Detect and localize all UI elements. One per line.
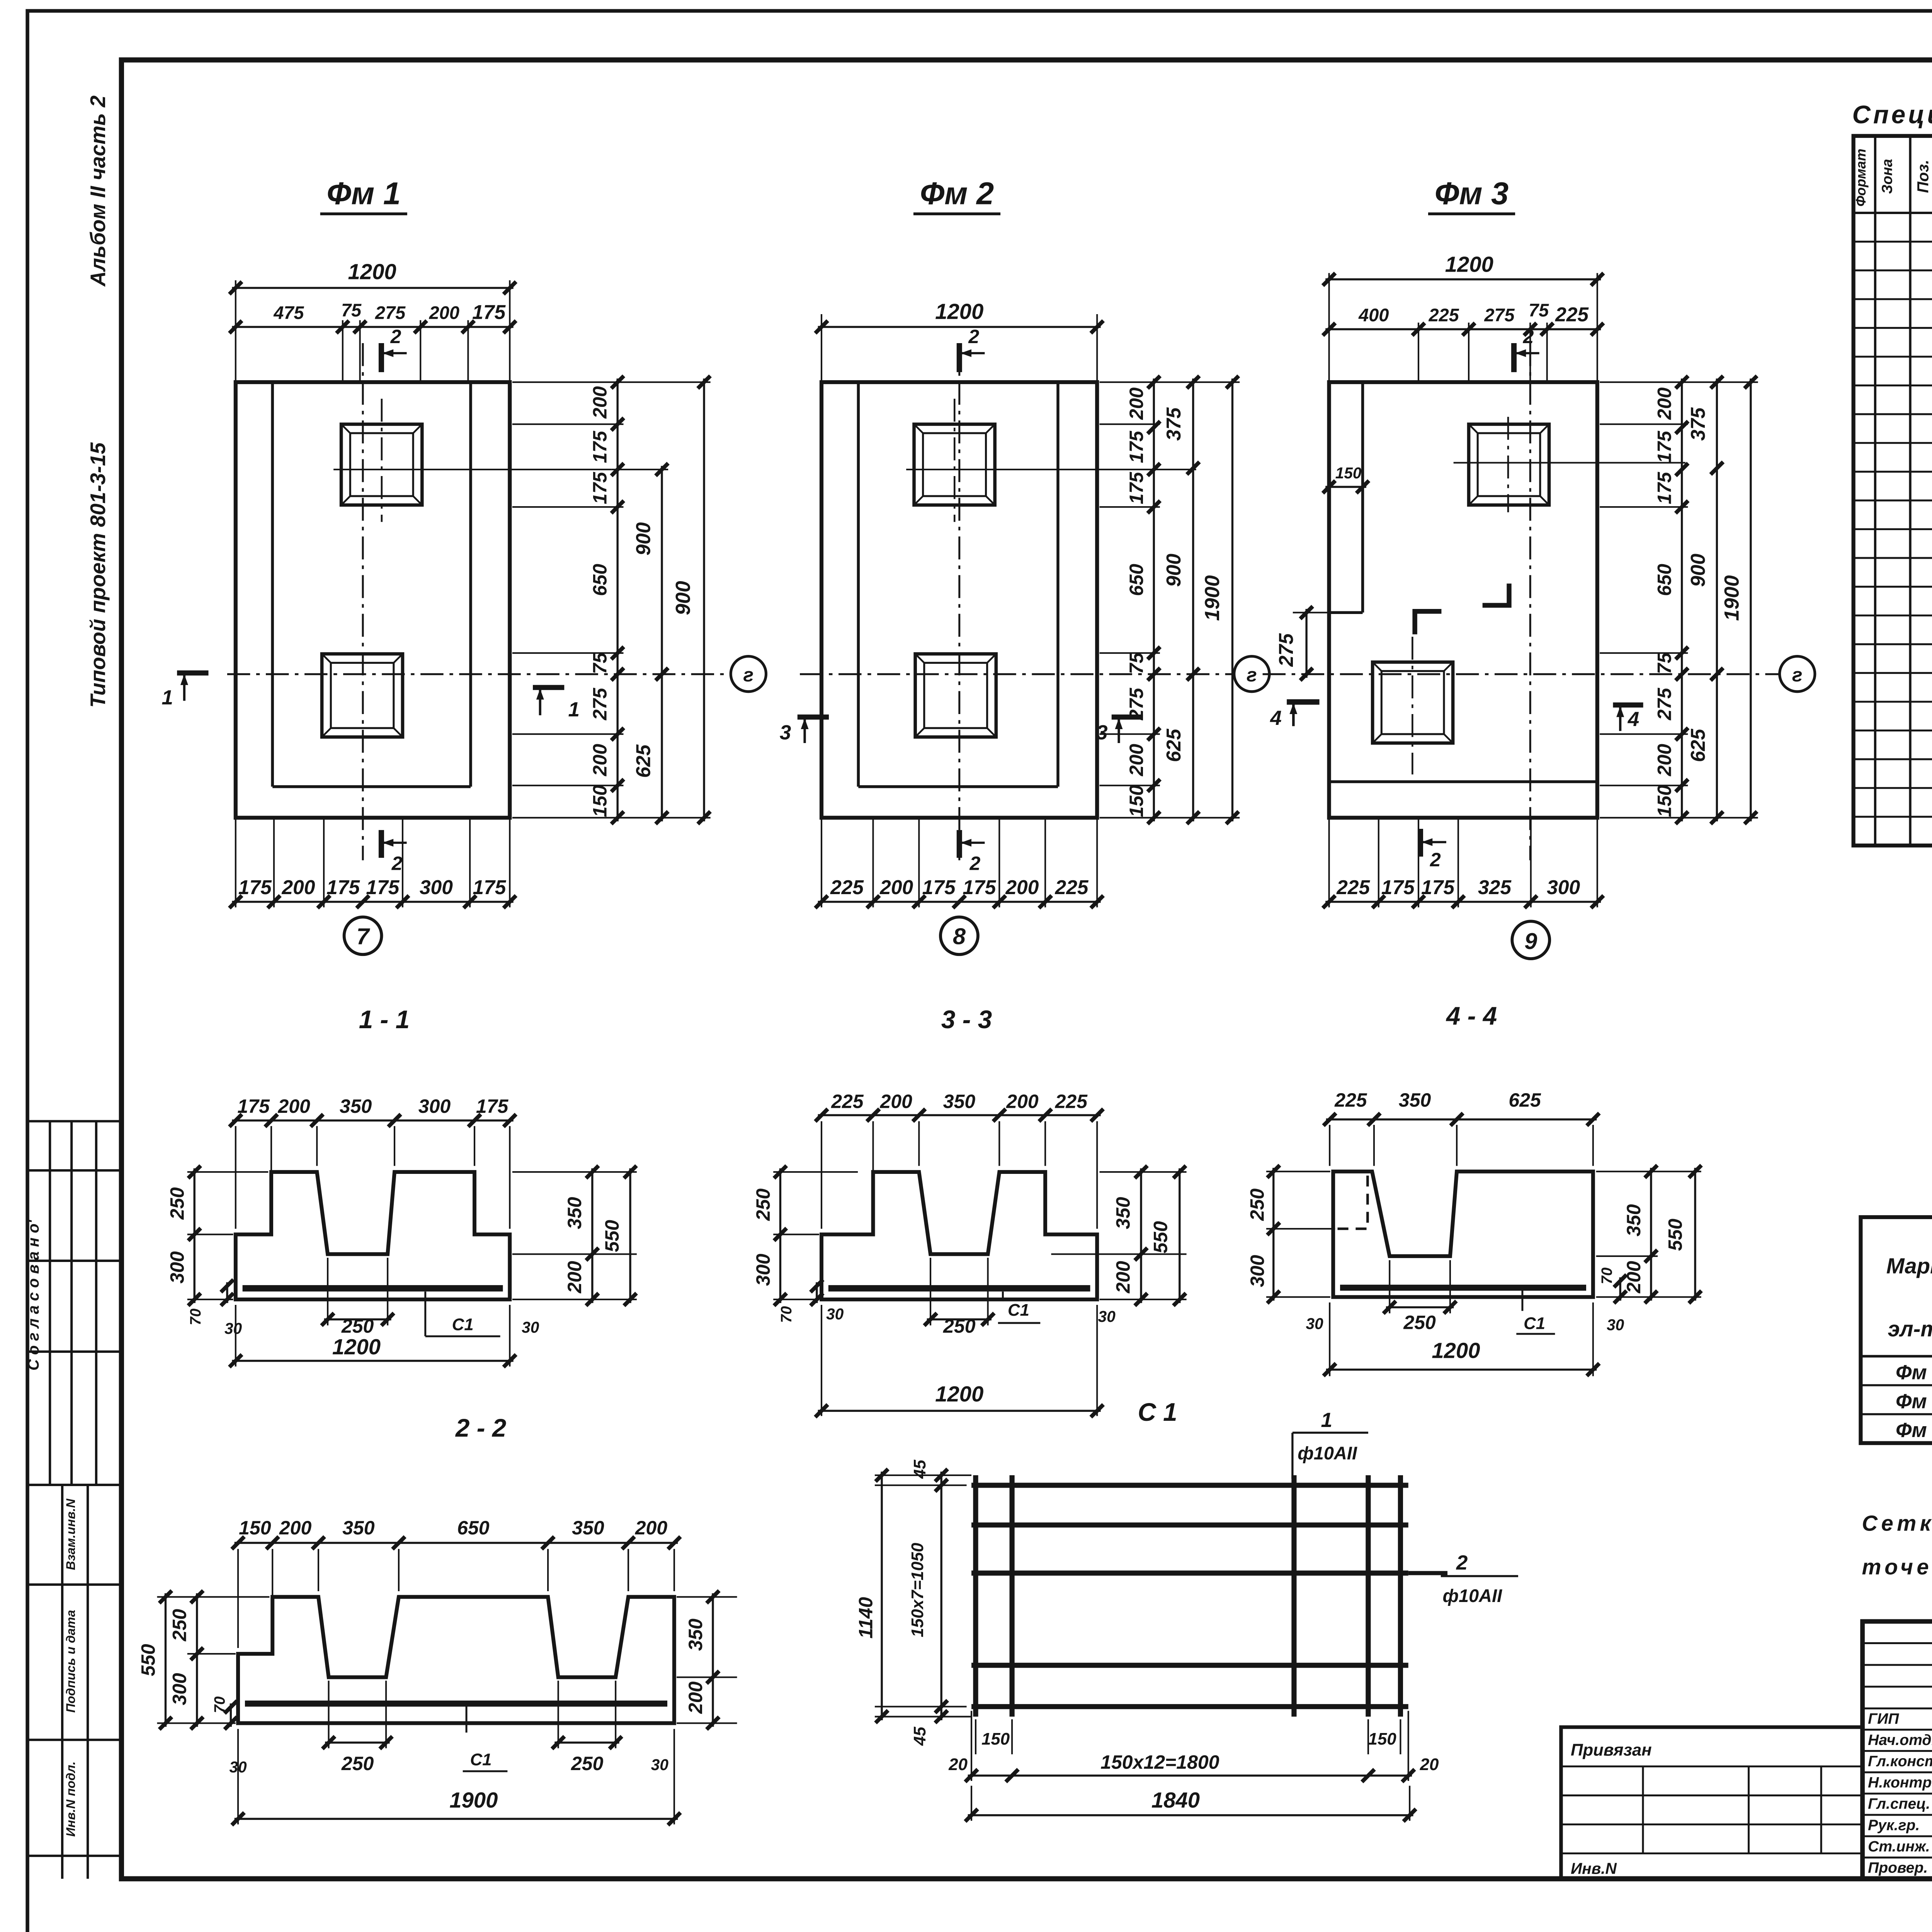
- svg-text:900: 900: [632, 522, 654, 555]
- svg-text:Гл.спец.: Гл.спец.: [1868, 1796, 1930, 1812]
- svg-text:70: 70: [778, 1306, 795, 1323]
- svg-text:225: 225: [1334, 1089, 1367, 1111]
- svg-text:Фм 1: Фм 1: [1896, 1361, 1932, 1384]
- svg-text:Зона: Зона: [1879, 159, 1895, 194]
- svg-text:45: 45: [910, 1726, 929, 1746]
- svg-text:Фм 3: Фм 3: [1435, 176, 1509, 211]
- svg-text:175: 175: [366, 876, 400, 898]
- svg-text:150: 150: [589, 785, 611, 817]
- svg-text:625: 625: [1162, 728, 1185, 762]
- svg-text:175: 175: [476, 1095, 509, 1117]
- svg-text:325: 325: [1478, 876, 1512, 898]
- svg-text:200: 200: [685, 1681, 706, 1714]
- svg-text:Ст.инж.: Ст.инж.: [1868, 1838, 1930, 1855]
- svg-text:300: 300: [1547, 876, 1580, 898]
- svg-text:75: 75: [1126, 652, 1147, 674]
- svg-text:550: 550: [1150, 1221, 1172, 1253]
- svg-text:150: 150: [981, 1730, 1010, 1748]
- svg-text:225: 225: [1429, 305, 1459, 325]
- svg-text:375: 375: [1687, 407, 1709, 440]
- svg-text:Типовой проект 801-3-15: Типовой проект 801-3-15: [86, 442, 110, 708]
- svg-text:2: 2: [1456, 1551, 1468, 1574]
- svg-text:150: 150: [1126, 785, 1147, 817]
- svg-text:225: 225: [1055, 876, 1089, 898]
- svg-text:1200: 1200: [332, 1335, 381, 1359]
- svg-text:2: 2: [1430, 849, 1441, 871]
- svg-text:200: 200: [1005, 876, 1039, 898]
- svg-text:250: 250: [169, 1609, 190, 1642]
- svg-text:С1: С1: [1524, 1314, 1545, 1333]
- svg-text:200: 200: [589, 386, 611, 419]
- svg-text:225: 225: [830, 876, 864, 898]
- svg-text:900: 900: [1162, 554, 1185, 587]
- svg-text:г: г: [1247, 664, 1257, 686]
- svg-text:300: 300: [752, 1253, 774, 1286]
- svg-text:Провер.: Провер.: [1868, 1860, 1928, 1876]
- svg-text:275: 275: [1484, 305, 1515, 325]
- svg-text:7: 7: [357, 923, 371, 949]
- svg-text:Альбом ΙΙ часть 2: Альбом ΙΙ часть 2: [86, 95, 110, 287]
- svg-text:200: 200: [281, 876, 315, 898]
- svg-text:Гл.констр.: Гл.констр.: [1868, 1753, 1932, 1770]
- svg-text:75: 75: [589, 652, 611, 674]
- svg-text:1840: 1840: [1151, 1788, 1200, 1812]
- svg-text:225: 225: [1336, 876, 1370, 898]
- svg-text:175: 175: [237, 1095, 270, 1117]
- svg-text:225: 225: [1055, 1090, 1088, 1112]
- svg-text:150: 150: [1368, 1730, 1396, 1748]
- svg-text:200: 200: [1126, 387, 1147, 420]
- svg-text:200: 200: [564, 1261, 585, 1294]
- svg-text:30: 30: [651, 1756, 669, 1774]
- svg-text:175: 175: [327, 876, 360, 898]
- svg-text:300: 300: [169, 1673, 190, 1705]
- svg-text:3 - 3: 3 - 3: [941, 1005, 992, 1034]
- svg-text:20: 20: [948, 1755, 968, 1774]
- svg-text:точечной электросварки.: точечной электросварки.: [1862, 1554, 1932, 1579]
- svg-text:ф10АΙΙ: ф10АΙΙ: [1443, 1586, 1503, 1606]
- svg-text:2: 2: [390, 326, 401, 347]
- svg-text:2: 2: [969, 852, 981, 874]
- svg-text:225: 225: [1555, 303, 1589, 326]
- svg-text:70: 70: [1599, 1267, 1615, 1284]
- svg-text:250: 250: [1247, 1189, 1268, 1221]
- svg-text:275: 275: [1654, 687, 1675, 721]
- svg-text:Н.контр.: Н.контр.: [1868, 1774, 1932, 1791]
- svg-text:Фм 3: Фм 3: [1896, 1419, 1932, 1442]
- svg-text:350: 350: [1399, 1089, 1431, 1111]
- svg-text:150: 150: [1335, 464, 1362, 482]
- svg-text:С1: С1: [470, 1750, 492, 1769]
- svg-text:20: 20: [1420, 1755, 1439, 1774]
- svg-text:300: 300: [1247, 1255, 1268, 1287]
- svg-text:350: 350: [943, 1090, 976, 1112]
- svg-text:275: 275: [1275, 633, 1297, 667]
- svg-text:1: 1: [568, 698, 580, 721]
- svg-text:200: 200: [1006, 1090, 1039, 1112]
- svg-text:С1: С1: [452, 1315, 474, 1334]
- svg-text:1: 1: [162, 686, 173, 709]
- svg-text:200: 200: [1654, 744, 1675, 777]
- svg-text:4 - 4: 4 - 4: [1446, 1002, 1497, 1030]
- svg-text:75: 75: [1529, 300, 1549, 320]
- svg-text:300: 300: [420, 876, 453, 898]
- svg-text:75: 75: [1654, 652, 1675, 674]
- svg-text:Инв.N: Инв.N: [1571, 1860, 1617, 1878]
- svg-text:150: 150: [1654, 785, 1675, 817]
- svg-text:650: 650: [589, 564, 611, 596]
- svg-text:30: 30: [826, 1305, 844, 1323]
- svg-text:Подпись и дата: Подпись и дата: [63, 1610, 78, 1713]
- svg-text:С1: С1: [1008, 1301, 1029, 1320]
- svg-text:650: 650: [457, 1517, 490, 1539]
- svg-text:3: 3: [1096, 721, 1108, 744]
- svg-text:1900: 1900: [1201, 575, 1224, 621]
- svg-text:625: 625: [1687, 728, 1709, 762]
- svg-text:С 1: С 1: [1138, 1398, 1177, 1426]
- svg-text:350: 350: [572, 1517, 604, 1539]
- svg-text:3: 3: [780, 721, 791, 744]
- svg-text:625: 625: [1509, 1089, 1541, 1111]
- svg-text:1200: 1200: [935, 299, 983, 323]
- svg-text:175: 175: [1421, 876, 1455, 898]
- svg-text:Нач.отд.: Нач.отд.: [1868, 1732, 1932, 1748]
- svg-text:625: 625: [632, 744, 654, 778]
- svg-text:175: 175: [473, 876, 506, 898]
- svg-text:175: 175: [1654, 430, 1675, 463]
- svg-text:175: 175: [589, 471, 611, 504]
- svg-text:2 - 2: 2 - 2: [455, 1414, 506, 1442]
- svg-text:30: 30: [1306, 1315, 1323, 1333]
- svg-text:4: 4: [1270, 707, 1282, 730]
- svg-text:350: 350: [564, 1197, 585, 1229]
- svg-text:350: 350: [1112, 1197, 1134, 1229]
- svg-text:Привязан: Привязан: [1571, 1740, 1652, 1759]
- svg-text:ф10АΙΙ: ф10АΙΙ: [1298, 1443, 1357, 1463]
- svg-text:1200: 1200: [348, 259, 396, 284]
- svg-text:275: 275: [375, 303, 406, 323]
- svg-text:175: 175: [472, 301, 506, 323]
- svg-text:250: 250: [571, 1753, 604, 1774]
- svg-text:475: 475: [273, 303, 304, 323]
- svg-text:175: 175: [922, 876, 956, 898]
- svg-text:8: 8: [953, 923, 966, 949]
- svg-text:30: 30: [224, 1320, 242, 1337]
- svg-text:г: г: [1792, 664, 1803, 686]
- svg-text:350: 350: [342, 1517, 375, 1539]
- svg-text:900: 900: [1687, 554, 1709, 587]
- svg-text:С о г л а с о в а н о': С о г л а с о в а н о': [24, 1219, 42, 1371]
- svg-text:250: 250: [943, 1315, 976, 1337]
- svg-text:250: 250: [752, 1189, 774, 1221]
- svg-text:275: 275: [589, 687, 611, 721]
- svg-text:1: 1: [1321, 1409, 1333, 1432]
- svg-text:1200: 1200: [1432, 1338, 1480, 1363]
- svg-text:9: 9: [1524, 928, 1537, 954]
- svg-text:250: 250: [341, 1315, 374, 1337]
- svg-text:4: 4: [1628, 708, 1639, 731]
- svg-text:200: 200: [635, 1517, 668, 1539]
- svg-text:225: 225: [831, 1090, 864, 1112]
- svg-text:200: 200: [429, 303, 459, 323]
- svg-text:550: 550: [137, 1644, 159, 1676]
- svg-text:1900: 1900: [1721, 575, 1743, 621]
- svg-text:175: 175: [238, 876, 272, 898]
- svg-text:350: 350: [1623, 1204, 1645, 1236]
- svg-text:30: 30: [1098, 1308, 1116, 1325]
- svg-text:350: 350: [685, 1619, 706, 1651]
- svg-text:200: 200: [589, 744, 611, 777]
- svg-text:650: 650: [1654, 564, 1675, 596]
- svg-text:250: 250: [1403, 1312, 1436, 1333]
- svg-text:1140: 1140: [855, 1597, 877, 1639]
- svg-text:550: 550: [601, 1220, 623, 1252]
- svg-text:Спецификация элементов монолит: Спецификация элементов монолитной констр…: [1852, 100, 1932, 129]
- svg-text:70: 70: [187, 1308, 204, 1325]
- svg-text:Рук.гр.: Рук.гр.: [1868, 1817, 1920, 1834]
- svg-text:Формат: Формат: [1853, 149, 1869, 207]
- svg-text:350: 350: [340, 1095, 372, 1117]
- svg-text:200: 200: [1126, 744, 1147, 777]
- svg-text:Марка: Марка: [1886, 1254, 1932, 1278]
- svg-text:Фм 1: Фм 1: [327, 176, 401, 211]
- svg-text:ГИП: ГИП: [1868, 1711, 1899, 1727]
- svg-text:Сетки должны изготовляться при: Сетки должны изготовляться при помощи ко…: [1862, 1511, 1932, 1536]
- svg-text:375: 375: [1162, 407, 1185, 440]
- svg-text:г: г: [743, 664, 753, 686]
- svg-text:200: 200: [1654, 387, 1675, 420]
- svg-text:150: 150: [239, 1517, 271, 1539]
- svg-text:45: 45: [910, 1459, 929, 1479]
- svg-text:1900: 1900: [449, 1788, 498, 1812]
- svg-text:250: 250: [166, 1187, 188, 1220]
- svg-text:1200: 1200: [935, 1382, 983, 1406]
- svg-text:175: 175: [963, 876, 996, 898]
- svg-text:Фм 2: Фм 2: [1896, 1390, 1932, 1413]
- svg-text:Инв.N подл.: Инв.N подл.: [63, 1761, 78, 1837]
- svg-text:175: 175: [1126, 430, 1147, 463]
- svg-text:2: 2: [968, 326, 979, 347]
- svg-text:175: 175: [1381, 876, 1415, 898]
- svg-text:250: 250: [341, 1753, 374, 1774]
- svg-text:300: 300: [166, 1251, 188, 1284]
- svg-text:2: 2: [391, 852, 403, 874]
- svg-text:200: 200: [1112, 1261, 1134, 1294]
- svg-text:175: 175: [1126, 471, 1147, 504]
- svg-text:200: 200: [879, 876, 913, 898]
- svg-text:1200: 1200: [1445, 252, 1493, 277]
- svg-text:2: 2: [1523, 326, 1534, 347]
- svg-text:200: 200: [880, 1090, 913, 1112]
- svg-text:650: 650: [1126, 564, 1147, 596]
- svg-text:30: 30: [1607, 1316, 1624, 1334]
- svg-text:75: 75: [341, 300, 362, 320]
- svg-text:Поз.: Поз.: [1914, 160, 1932, 193]
- svg-text:Фм 2: Фм 2: [920, 176, 994, 211]
- svg-text:400: 400: [1358, 305, 1389, 325]
- svg-text:175: 175: [1654, 471, 1675, 504]
- svg-text:150x12=1800: 150x12=1800: [1100, 1752, 1219, 1773]
- svg-text:1 - 1: 1 - 1: [359, 1005, 410, 1034]
- svg-text:175: 175: [589, 430, 611, 463]
- svg-text:200: 200: [279, 1517, 312, 1539]
- svg-text:300: 300: [418, 1095, 451, 1117]
- svg-text:эл-та: эл-та: [1888, 1316, 1932, 1341]
- svg-text:Взам.инв.N: Взам.инв.N: [63, 1498, 78, 1570]
- svg-text:550: 550: [1665, 1219, 1686, 1251]
- svg-text:900: 900: [672, 581, 695, 615]
- svg-text:150x7=1050: 150x7=1050: [908, 1543, 927, 1638]
- svg-text:30: 30: [522, 1318, 539, 1336]
- svg-text:200: 200: [277, 1095, 310, 1117]
